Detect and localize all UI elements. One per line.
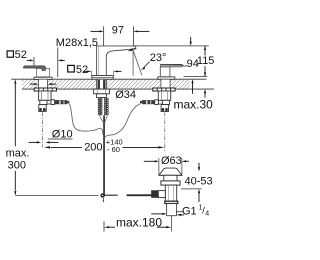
spout washer — [97, 94, 107, 98]
dim94 top arrow — [190, 37, 192, 43]
right valve elbow — [162, 100, 169, 104]
left valve threaded hose end — [55, 100, 68, 104]
left valve hex body — [39, 91, 51, 100]
G1 1/4 leader — [176, 211, 183, 213]
spout inner line — [98, 47, 100, 79]
waste side port — [158, 191, 165, 198]
aerator dark band — [128, 48, 134, 51]
left valve elbow — [40, 100, 47, 104]
left valve shank through deck — [39, 79, 48, 89]
svg-text:max.180: max.180 — [116, 215, 162, 229]
waste flange — [161, 181, 180, 185]
right handle lever — [160, 64, 183, 67]
right valve shank — [161, 79, 170, 89]
waste collar — [165, 201, 178, 203]
right valve pipe — [158, 100, 162, 104]
dim94 bottom arrow — [191, 79, 193, 83]
svg-text:max.: max. — [6, 147, 30, 159]
svg-text:Ø34: Ø34 — [115, 89, 136, 101]
deck top line — [11, 78, 206, 80]
right handle post — [160, 67, 170, 77]
right valve centerline — [164, 112, 166, 152]
waste plug dome — [159, 168, 182, 175]
svg-text:300: 300 — [8, 160, 26, 172]
svg-text:max.30: max.30 — [174, 97, 214, 111]
svg-text:52: 52 — [15, 49, 27, 61]
svg-text:97: 97 — [112, 25, 124, 37]
plate-top extension line — [184, 76, 208, 78]
hose length reference line — [15, 195, 98, 197]
waste body — [165, 185, 176, 201]
horizontal pop-up rod — [105, 195, 118, 196]
svg-text:40-53: 40-53 — [185, 176, 213, 188]
pop-up rod ball joint — [100, 193, 104, 197]
dim115 line — [204, 46, 206, 56]
spray direction line — [133, 50, 142, 75]
dimension square52 left arrows — [27, 47, 65, 77]
left handle base box — [36, 68, 49, 77]
left deck hole arrows — [30, 83, 56, 85]
svg-text:52: 52 — [76, 64, 88, 76]
dimension Ø10 arrows — [29, 141, 37, 143]
waste neck — [164, 175, 177, 181]
svg-text:M28x1,5: M28x1,5 — [56, 37, 98, 49]
max30 lower arrow — [204, 93, 206, 98]
dimension 200 — [51, 146, 159, 148]
left hose — [69, 104, 103, 135]
left valve tail box — [39, 105, 46, 112]
spout plate arrows — [84, 70, 122, 75]
svg-text:115: 115 — [197, 55, 215, 67]
right valve tail box — [161, 105, 168, 112]
waste rod housing block — [151, 190, 158, 198]
left valve centerline — [42, 112, 44, 147]
right valve threaded hose end — [142, 100, 155, 104]
svg-text:200: 200 — [84, 141, 102, 153]
svg-text:23°: 23° — [150, 52, 167, 64]
left valve hose cap ring — [51, 100, 55, 105]
square52 spout label — [68, 64, 88, 76]
pop-up rod vertical — [103, 115, 105, 196]
right valve wide mounting nut — [153, 88, 175, 91]
spout stud taper — [99, 115, 103, 121]
spout outline — [97, 46, 136, 79]
dimension square52 left label — [7, 49, 27, 61]
tail centerline — [170, 216, 172, 232]
right valve hose cap ring — [155, 100, 159, 105]
top extension line — [134, 45, 209, 47]
right valve hex body — [158, 91, 170, 100]
left valve wide mounting nut — [34, 88, 56, 91]
spout mounting nut — [94, 89, 110, 94]
dimension G1 1/4 arrows — [151, 213, 162, 215]
max300 dimension line — [14, 84, 16, 146]
spout base plate — [92, 76, 113, 80]
ball joint stub — [102, 198, 104, 201]
deck hatched band — [22, 79, 190, 89]
svg-text:Ø63: Ø63 — [161, 155, 182, 167]
svg-text:Ø10: Ø10 — [52, 128, 73, 140]
left valve pipe to fitting — [47, 100, 51, 104]
right handle base plate — [158, 77, 175, 79]
23deg leader — [144, 62, 150, 68]
spout threaded studs — [98, 98, 102, 116]
svg-text:- 60: - 60 — [107, 145, 120, 154]
left handle lever — [24, 66, 46, 71]
waste tailpiece — [167, 204, 177, 216]
left handle base plate — [34, 77, 52, 79]
leader 94 — [183, 65, 187, 67]
spout shank thread in deck — [97, 79, 107, 89]
deck bottom line — [22, 88, 214, 90]
right hose — [105, 104, 140, 138]
svg-text:4: 4 — [205, 210, 209, 217]
svg-text:G1: G1 — [182, 206, 197, 218]
